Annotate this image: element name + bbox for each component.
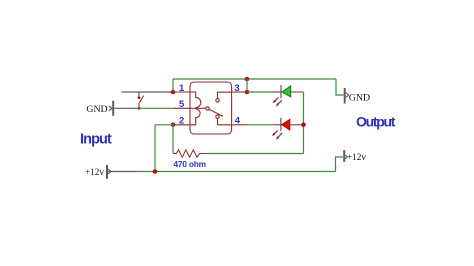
connector J-GND-left pin bar [109,101,113,116]
wire: green LED anode to right riser [291,91,304,93]
junction: +12v rail T [153,169,158,174]
connector J+12v-right pin bar [344,150,347,162]
junction: red LED anode node [301,123,306,128]
wire: open stub to switch, top left, y=92 [122,91,174,93]
wire: net to pin 5 (green part) [141,107,173,109]
wire: resistor to right riser [206,153,304,155]
junction: pin 2 node [171,123,176,128]
svg-text:GND: GND [86,104,107,115]
LED D1 green [274,85,291,98]
pin 5 stub [173,107,190,109]
pin 4 stub [232,124,247,126]
wire: top rail to right GND connector [336,79,344,95]
resistor R1 470 ohm [173,150,206,157]
wire: GND connector to pin 5 (gray part) [114,107,141,109]
LED D2 emission arrows [272,130,282,139]
connector J+12v-left pin bar [107,165,111,179]
LED D2 red [274,118,290,131]
wire: +12v rail green [136,171,336,173]
pin 2 stub [173,124,190,126]
wire: pin2 node to left riser [155,124,173,126]
relay K1 body [190,82,232,134]
junction node: pin 1 [171,90,176,95]
svg-text:1: 1 [179,83,185,94]
svg-text:Output: Output [356,114,396,130]
wire: drop from top rail to pin3 net [246,79,248,92]
wire: pin4 to red LED cathode [247,124,274,126]
svg-text:+12v: +12v [347,152,366,162]
wire: red LED anode to right riser [290,124,304,126]
svg-text:+12v: +12v [85,167,104,177]
junction: pin 3 node [245,90,250,95]
wire: pin3 node to green LED cathode [247,91,274,93]
LED D1 emission arrows [273,98,282,107]
wire: +12v connector gray lead [108,171,136,173]
wire: top green rail y=79 [173,78,336,80]
svg-text:470 ohm: 470 ohm [174,159,206,169]
relay lever [209,109,223,116]
junction: switch to GND wire [137,107,140,110]
connector J-GND-right pin bar [345,88,349,104]
relay coil (pins 1-2) [190,92,201,125]
wire: rail up to right +12v connector [336,157,344,172]
svg-text:5: 5 [179,99,185,110]
wire: right riser x=303.5 [303,92,305,154]
pin 1 stub [173,91,190,93]
wire: pin2 node down to resistor [172,125,174,154]
pin 3 stub [232,91,247,93]
svg-text:Input: Input [80,131,112,147]
switch S1 (between top wire and GND wire) [138,92,144,108]
wire: riser from pin1 junction to top rail [172,79,174,92]
relay top contact to pin 3 [216,92,232,102]
junction: top rail T at x=247 [245,77,250,82]
relay bottom contact to pin 4 [216,115,232,125]
relay pin5 internal lead [190,107,206,109]
wire: left riser x=155 down to +12v rail [154,125,156,172]
svg-text:GND: GND [349,93,370,104]
relay common pole contact [206,107,209,110]
